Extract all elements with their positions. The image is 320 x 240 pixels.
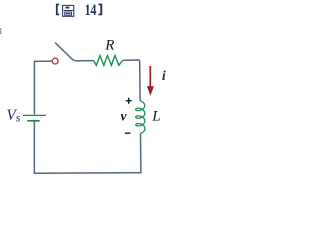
title glyph 圖: [63, 5, 74, 16]
wire stub corner to switch contact: [34, 60, 52, 62]
svg-text:i: i: [162, 69, 166, 84]
battery short plate: [27, 120, 39, 122]
svg-text:14: 14: [85, 1, 97, 19]
left vertical wire upper: [33, 61, 35, 115]
inductor coil L: [136, 101, 145, 134]
minus sign: [125, 132, 130, 134]
title bracket left 【: [56, 4, 59, 16]
svg-text:L: L: [151, 109, 160, 125]
current arrow i: [149, 66, 151, 88]
right vertical wire upper: [139, 60, 142, 101]
switch blade: [55, 42, 75, 61]
svg-text:s: s: [16, 111, 21, 125]
left vertical wire lower + bottom wire + right vertical lower: [34, 122, 141, 174]
switch contact circle: [52, 58, 58, 64]
top wire run with slight scan tilt: [34, 41, 140, 61]
svg-text:R: R: [104, 38, 114, 54]
plus sign: [126, 98, 132, 104]
wire resistor to top-right corner: [123, 59, 140, 61]
wire switch pivot to resistor: [75, 60, 93, 62]
resistor R zigzag (tilted with wire): [94, 55, 123, 65]
left edge text fragment: [0, 29, 2, 34]
title text 14: [85, 1, 97, 19]
title bracket right 】: [98, 4, 102, 16]
battery long plate: [23, 114, 46, 116]
svg-text:v: v: [120, 109, 127, 124]
